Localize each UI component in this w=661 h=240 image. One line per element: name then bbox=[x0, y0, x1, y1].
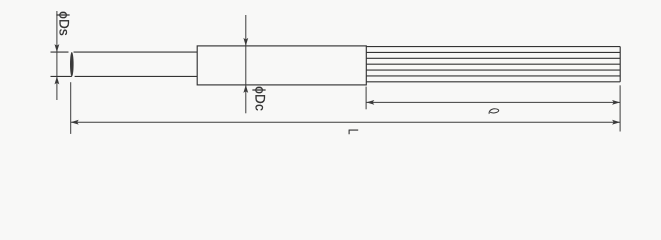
body rectangle (φDc section) bbox=[197, 46, 366, 85]
arrowhead φDc bottom (up) bbox=[243, 85, 248, 93]
label ℓ (script ell, rotated 90°, drawn as path) bbox=[489, 109, 499, 114]
arrowhead ℓ left bbox=[366, 100, 374, 105]
extension line left (for L) bbox=[70, 82, 72, 134]
shank top edge bbox=[51, 51, 198, 53]
arrowhead φDc top (down) bbox=[243, 38, 248, 46]
arrowhead φDs bottom (up) bbox=[55, 76, 60, 84]
shank chamfer (solid narrow ellipse) bbox=[70, 52, 74, 77]
shank bottom edge bbox=[51, 75, 198, 77]
arrowhead L right bbox=[612, 120, 620, 125]
dimension line ℓ bbox=[366, 101, 620, 103]
flute right end face bbox=[619, 47, 621, 82]
extension line right end (for ℓ and L) bbox=[619, 85, 621, 131]
extension line left of flute (for ℓ) bbox=[365, 87, 367, 110]
arrowhead L left bbox=[71, 120, 79, 125]
svg-text:ϕDs: ϕDs bbox=[57, 11, 72, 36]
svg-text:ϕDc: ϕDc bbox=[252, 86, 267, 111]
flute horizontal lines bbox=[366, 47, 620, 82]
dimension line L bbox=[71, 121, 620, 123]
arrowhead φDs top (down) bbox=[55, 44, 60, 52]
dimension line φDs (vertical, coincides with shank end face) bbox=[56, 11, 58, 100]
arrowhead ℓ right bbox=[612, 100, 620, 105]
dimension line φDc (continuous through body) bbox=[245, 15, 247, 113]
label L (rotated 90°, drawn as path) bbox=[349, 130, 359, 134]
